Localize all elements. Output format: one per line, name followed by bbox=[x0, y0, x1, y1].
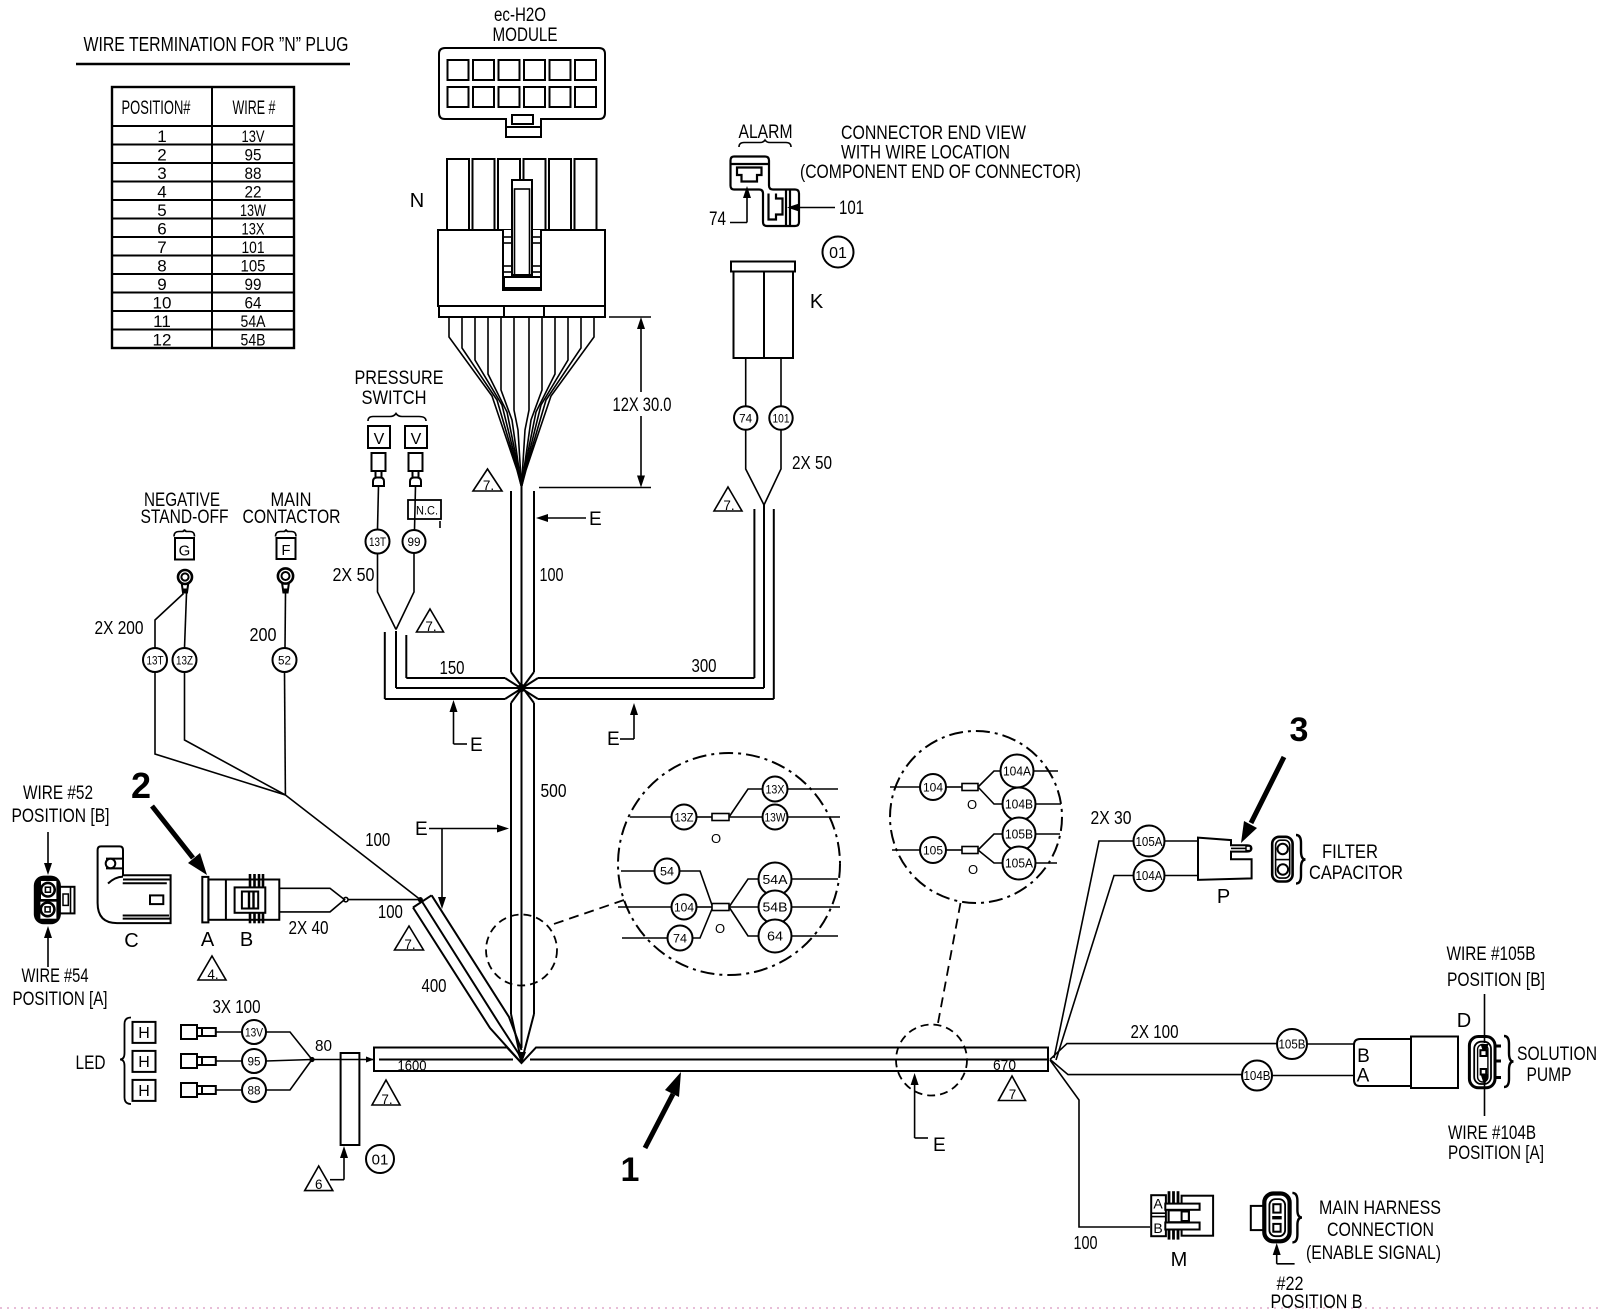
svg-text:64: 64 bbox=[245, 294, 262, 313]
svg-text:WITH WIRE LOCATION: WITH WIRE LOCATION bbox=[841, 143, 1010, 164]
svg-text:CONNECTION: CONNECTION bbox=[1327, 1220, 1434, 1241]
svg-text:O: O bbox=[715, 921, 725, 936]
svg-text:MODULE: MODULE bbox=[493, 25, 558, 46]
svg-text:POSITION [B]: POSITION [B] bbox=[1447, 970, 1545, 991]
svg-text:SOLUTION: SOLUTION bbox=[1517, 1044, 1597, 1065]
svg-text:POSITION B: POSITION B bbox=[1271, 1292, 1363, 1313]
svg-text:1: 1 bbox=[157, 127, 166, 146]
svg-text:6: 6 bbox=[315, 1177, 323, 1192]
svg-text:13V: 13V bbox=[245, 1028, 263, 1040]
svg-text:4: 4 bbox=[157, 183, 166, 202]
svg-text:2X 50: 2X 50 bbox=[792, 453, 832, 473]
svg-text:3X 100: 3X 100 bbox=[213, 997, 261, 1017]
svg-text:101: 101 bbox=[839, 198, 864, 219]
svg-text:WIRE TERMINATION FOR ”N” PLUG: WIRE TERMINATION FOR ”N” PLUG bbox=[84, 34, 349, 56]
svg-text:8: 8 bbox=[157, 257, 166, 276]
svg-text:(COMPONENT END OF CONNECTOR): (COMPONENT END OF CONNECTOR) bbox=[800, 162, 1081, 183]
svg-text:100: 100 bbox=[1074, 1233, 1098, 1253]
svg-text:O: O bbox=[711, 831, 721, 846]
svg-text:104A: 104A bbox=[1003, 764, 1031, 779]
svg-text:FILTER: FILTER bbox=[1322, 842, 1378, 863]
svg-text:6: 6 bbox=[157, 220, 166, 239]
svg-text:O: O bbox=[967, 797, 977, 812]
svg-text:N.C.: N.C. bbox=[416, 504, 438, 518]
svg-text:01: 01 bbox=[372, 1152, 389, 1169]
svg-text:100: 100 bbox=[365, 830, 390, 850]
svg-text:D: D bbox=[1457, 1010, 1471, 1032]
svg-text:B: B bbox=[240, 929, 253, 951]
svg-text:POSITION [B]: POSITION [B] bbox=[12, 806, 110, 827]
svg-text:95: 95 bbox=[248, 1057, 261, 1069]
svg-text:54A: 54A bbox=[241, 312, 267, 331]
svg-text:54: 54 bbox=[660, 865, 674, 879]
svg-text:STAND-OFF: STAND-OFF bbox=[141, 507, 229, 528]
svg-text:2X 30: 2X 30 bbox=[1091, 808, 1132, 828]
svg-text:2: 2 bbox=[131, 765, 151, 806]
svg-text:PUMP: PUMP bbox=[1527, 1065, 1572, 1086]
svg-text:B: B bbox=[1357, 1046, 1370, 1067]
svg-text:105: 105 bbox=[923, 844, 943, 858]
svg-text:POSITION [A]: POSITION [A] bbox=[1448, 1143, 1544, 1164]
svg-text:E: E bbox=[470, 735, 483, 756]
svg-text:13W: 13W bbox=[240, 201, 266, 220]
svg-text:104B: 104B bbox=[1244, 1069, 1271, 1083]
svg-text:ec-H2O: ec-H2O bbox=[494, 5, 546, 26]
svg-text:CAPACITOR: CAPACITOR bbox=[1309, 863, 1403, 884]
svg-text:E: E bbox=[415, 819, 428, 840]
svg-text:200: 200 bbox=[250, 625, 277, 645]
svg-text:CONTACTOR: CONTACTOR bbox=[243, 507, 341, 528]
svg-text:7.: 7. bbox=[381, 1092, 392, 1107]
svg-text:1600: 1600 bbox=[398, 1058, 427, 1075]
svg-text:E: E bbox=[607, 729, 620, 750]
svg-text:V: V bbox=[374, 431, 385, 448]
svg-text:80: 80 bbox=[315, 1038, 332, 1055]
svg-text:M: M bbox=[1171, 1249, 1188, 1271]
svg-text:74: 74 bbox=[709, 209, 726, 230]
svg-text:74: 74 bbox=[739, 414, 753, 426]
svg-text:13T: 13T bbox=[147, 656, 164, 668]
svg-text:64: 64 bbox=[767, 929, 783, 944]
svg-text:13T: 13T bbox=[369, 537, 386, 549]
svg-text:13X: 13X bbox=[242, 220, 265, 239]
svg-text:52: 52 bbox=[278, 656, 291, 668]
svg-text:P: P bbox=[1217, 886, 1230, 908]
svg-text:H: H bbox=[138, 1083, 150, 1100]
svg-text:12X 30.0: 12X 30.0 bbox=[613, 395, 672, 416]
svg-text:5: 5 bbox=[157, 201, 166, 220]
svg-text:O: O bbox=[968, 862, 978, 877]
svg-text:500: 500 bbox=[541, 781, 567, 801]
svg-text:7.: 7. bbox=[723, 498, 734, 513]
svg-text:104A: 104A bbox=[1136, 869, 1164, 883]
svg-text:88: 88 bbox=[248, 1086, 261, 1098]
svg-text:V: V bbox=[411, 431, 422, 448]
svg-text:3: 3 bbox=[157, 164, 166, 183]
svg-text:104B: 104B bbox=[1005, 797, 1033, 812]
svg-text:E: E bbox=[933, 1135, 946, 1156]
svg-text:SWITCH: SWITCH bbox=[362, 388, 427, 409]
svg-text:10: 10 bbox=[153, 294, 172, 313]
svg-text:101: 101 bbox=[773, 414, 790, 426]
svg-text:74: 74 bbox=[673, 932, 687, 946]
svg-text:99: 99 bbox=[408, 537, 421, 549]
svg-text:A: A bbox=[1153, 1196, 1163, 1212]
svg-text:95: 95 bbox=[245, 146, 262, 165]
svg-text:101: 101 bbox=[242, 238, 265, 257]
svg-text:300: 300 bbox=[692, 656, 717, 676]
svg-text:K: K bbox=[810, 291, 824, 313]
svg-text:2X 100: 2X 100 bbox=[1131, 1022, 1179, 1042]
svg-text:A: A bbox=[201, 929, 215, 951]
svg-text:100: 100 bbox=[540, 565, 564, 585]
svg-text:54B: 54B bbox=[241, 331, 266, 350]
svg-text:88: 88 bbox=[245, 164, 262, 183]
svg-text:7.: 7. bbox=[425, 619, 436, 634]
svg-text:WIRE #: WIRE # bbox=[233, 98, 276, 119]
svg-text:54B: 54B bbox=[763, 900, 788, 915]
svg-text:WIRE #54: WIRE #54 bbox=[22, 966, 89, 987]
svg-text:4.: 4. bbox=[207, 967, 218, 982]
svg-text:100: 100 bbox=[378, 902, 403, 922]
svg-text:99: 99 bbox=[245, 275, 262, 294]
svg-text:E: E bbox=[589, 509, 602, 530]
svg-text:2X 40: 2X 40 bbox=[289, 918, 329, 938]
svg-text:N: N bbox=[410, 190, 424, 212]
svg-text:MAIN HARNESS: MAIN HARNESS bbox=[1319, 1198, 1441, 1219]
svg-text:12: 12 bbox=[153, 331, 172, 350]
svg-text:105A: 105A bbox=[1136, 835, 1164, 849]
svg-text:9: 9 bbox=[157, 275, 166, 294]
svg-text:2X 50: 2X 50 bbox=[333, 565, 375, 585]
svg-text:22: 22 bbox=[245, 183, 262, 202]
svg-text:3: 3 bbox=[1290, 711, 1309, 749]
svg-text:2: 2 bbox=[157, 146, 166, 165]
svg-text:F: F bbox=[281, 542, 290, 559]
svg-text:B: B bbox=[1153, 1220, 1162, 1236]
svg-text:13X: 13X bbox=[766, 783, 785, 797]
svg-text:104: 104 bbox=[923, 781, 943, 795]
svg-text:13W: 13W bbox=[765, 811, 787, 825]
svg-text:H: H bbox=[138, 1025, 150, 1042]
svg-text:WIRE #104B: WIRE #104B bbox=[1448, 1123, 1536, 1144]
svg-text:H: H bbox=[138, 1054, 150, 1071]
svg-text:13Z: 13Z bbox=[675, 811, 694, 825]
svg-text:7.: 7. bbox=[483, 478, 494, 493]
svg-text:(ENABLE SIGNAL): (ENABLE SIGNAL) bbox=[1306, 1243, 1441, 1264]
svg-text:13Z: 13Z bbox=[176, 656, 193, 668]
svg-text:LED: LED bbox=[76, 1053, 106, 1074]
svg-text:104: 104 bbox=[674, 901, 694, 915]
svg-text:POSITION#: POSITION# bbox=[122, 98, 191, 119]
svg-text:105B: 105B bbox=[1005, 827, 1033, 842]
svg-text:105A: 105A bbox=[1005, 856, 1033, 871]
svg-text:01: 01 bbox=[829, 245, 847, 262]
svg-text:400: 400 bbox=[422, 976, 447, 996]
svg-text:7: 7 bbox=[157, 238, 166, 257]
svg-text:150: 150 bbox=[440, 658, 465, 678]
svg-text:2X 200: 2X 200 bbox=[95, 618, 144, 638]
svg-text:13V: 13V bbox=[242, 127, 266, 146]
svg-text:C: C bbox=[124, 930, 138, 952]
svg-text:WIRE #105B: WIRE #105B bbox=[1447, 944, 1536, 965]
svg-text:A: A bbox=[1357, 1066, 1370, 1087]
svg-text:CONNECTOR END VIEW: CONNECTOR END VIEW bbox=[841, 123, 1026, 144]
svg-text:7: 7 bbox=[1009, 1087, 1017, 1102]
svg-text:7.: 7. bbox=[404, 937, 415, 952]
svg-text:G: G bbox=[179, 543, 191, 560]
svg-text:1: 1 bbox=[621, 1151, 640, 1189]
svg-text:670: 670 bbox=[993, 1057, 1016, 1074]
svg-text:105B: 105B bbox=[1279, 1038, 1306, 1052]
svg-text:PRESSURE: PRESSURE bbox=[355, 368, 444, 389]
svg-text:POSITION [A]: POSITION [A] bbox=[13, 989, 108, 1010]
svg-text:54A: 54A bbox=[763, 872, 788, 887]
svg-text:WIRE #52: WIRE #52 bbox=[23, 783, 93, 804]
svg-text:105: 105 bbox=[241, 257, 266, 276]
svg-text:11: 11 bbox=[153, 312, 171, 331]
